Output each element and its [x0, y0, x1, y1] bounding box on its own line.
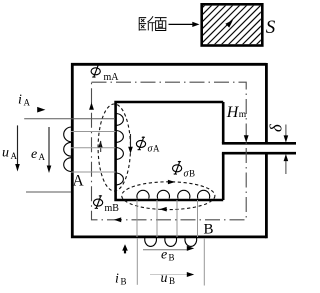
coil A inner turns (window bumps) — [116, 114, 124, 186]
core outer outline (top,left,bottom) — [72, 64, 266, 237]
svg-text:A: A — [11, 151, 18, 161]
svg-text:B: B — [169, 253, 175, 263]
coil B left terminal lead — [136, 238, 138, 285]
cross-section square S (hatched) — [147, 0, 319, 56]
svg-text:A: A — [153, 144, 160, 154]
air gap dimension line lower — [285, 161, 287, 175]
label PhimB — [94, 196, 103, 209]
flux direction arrowhead inside section — [225, 20, 233, 28]
core window right edge (interrupted by air gap) — [222, 102, 225, 200]
svg-text:m: m — [239, 110, 247, 120]
svg-text:B: B — [204, 222, 214, 238]
air gap pole faces — [222, 143, 296, 153]
svg-text:A: A — [39, 152, 46, 162]
sigmaB arrow right (top branch) — [168, 180, 175, 185]
coil B wire crossings over bottom yoke — [137, 200, 198, 237]
label PhisigmaB — [173, 162, 182, 175]
flux arrow left (bottom yoke) — [114, 217, 121, 222]
coil A wire crossings over limb — [71, 132, 116, 173]
svg-text:B: B — [121, 277, 127, 287]
svg-text:mB: mB — [105, 203, 120, 214]
leader arrow from 断面 to square — [169, 22, 200, 27]
svg-text:S: S — [266, 17, 276, 38]
coil A outer turns (left bumps) — [64, 127, 72, 172]
sigmaA arrow up (left branch) — [98, 141, 103, 149]
sigmaA arrow down (right branch) — [130, 134, 132, 147]
uB arrow — [150, 274, 187, 276]
coil A top lead wire — [24, 118, 115, 120]
uA voltage arrow — [17, 125, 19, 164]
svg-text:e: e — [161, 248, 167, 263]
eA voltage arrow — [48, 127, 50, 166]
svg-text:A: A — [73, 172, 85, 189]
air gap dimension line upper — [285, 125, 287, 137]
svg-text:B: B — [169, 276, 175, 286]
svg-text:A: A — [24, 98, 31, 108]
svg-text:e: e — [31, 147, 37, 162]
svg-text:mA: mA — [104, 72, 120, 83]
svg-text:i: i — [18, 93, 22, 108]
label 断面 (hand-drawn glyphs) — [139, 16, 166, 31]
label PhisigmaA — [136, 137, 145, 150]
core window inner outline (top,left,bottom) — [116, 102, 224, 200]
eB line and arrow — [143, 249, 187, 251]
coil B right terminal lead — [203, 238, 205, 286]
svg-text:u: u — [161, 271, 168, 286]
current iB arrow — [122, 244, 128, 250]
main flux dash-dot loop — [92, 82, 247, 220]
coil A leakage flux ellipse — [98, 104, 130, 191]
svg-text:i: i — [115, 272, 119, 287]
svg-text:B: B — [189, 169, 195, 179]
svg-text:H: H — [226, 104, 240, 121]
core outer right edge (interrupted by air gap) — [265, 63, 268, 238]
flux arrow up (left limb) — [89, 102, 94, 109]
flux arrow down (right limb, at gap) — [244, 135, 249, 142]
svg-text:δ: δ — [267, 124, 286, 132]
sigmaB arrow left (bottom branch) — [159, 207, 166, 212]
label PhimA — [91, 65, 100, 78]
svg-text:u: u — [2, 146, 9, 161]
current iA arrow — [37, 107, 45, 113]
coil B turns in window (circles) — [137, 190, 210, 198]
coil A bottom lead wire — [26, 191, 71, 193]
coil B leakage flux ellipse — [122, 182, 215, 210]
coil B lower turns (below yoke) — [145, 236, 197, 247]
